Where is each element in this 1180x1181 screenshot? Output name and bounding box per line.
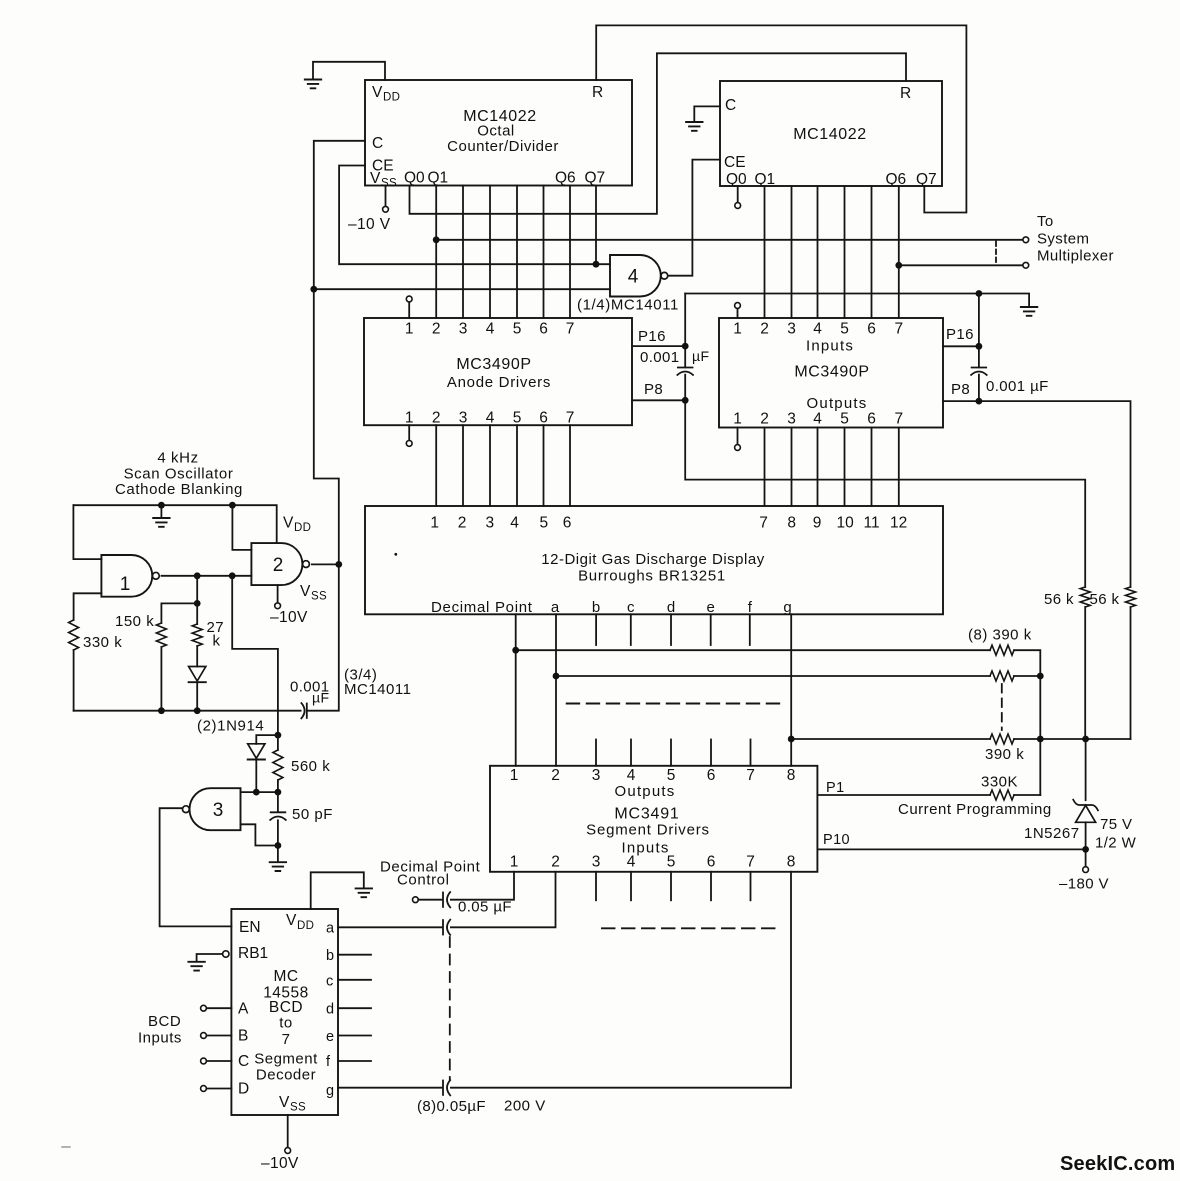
label (8)0.05uF xyxy=(417,1098,486,1115)
resistor R4 330K current programming xyxy=(990,790,1014,800)
label (2)1N914 xyxy=(197,718,264,735)
label 200 V xyxy=(504,1098,546,1115)
svg-text:µF: µF xyxy=(312,690,329,706)
wire h2 segment a to R 390k-2 xyxy=(556,675,990,677)
label P16 (U3) xyxy=(638,328,666,345)
wire gate2 VSS stub xyxy=(277,585,279,603)
label 390 k xyxy=(985,746,1024,763)
svg-text:10: 10 xyxy=(836,515,854,532)
svg-text:5: 5 xyxy=(840,411,849,428)
wire RB1 to ground xyxy=(197,954,223,961)
label 56 k (R6) xyxy=(1090,591,1120,608)
wire U1 output column x=517 to U3 xyxy=(516,186,518,319)
stub U5 input x=711 xyxy=(710,740,712,766)
wire U3 output x=517 to display xyxy=(516,425,518,506)
junction top rail / gate2 input xyxy=(229,502,236,509)
ground at RB1 xyxy=(188,962,204,971)
svg-text:Multiplexer: Multiplexer xyxy=(1037,248,1114,265)
terminal BCD input y=1008.2 xyxy=(201,1005,207,1011)
wire U3 output x=463 to display xyxy=(462,425,464,506)
wire gate4 bottom input from clock line xyxy=(314,288,610,290)
IC U1 MC14022 octal counter/divider box xyxy=(365,80,632,186)
junction rail / 27k-D1 xyxy=(194,707,201,714)
junction Q1 column / multiplexer line xyxy=(433,236,440,243)
svg-text:560 k: 560 k xyxy=(291,758,330,775)
wire gate1 output to gate2 input xyxy=(162,575,252,577)
IC U6 MC14558 BCD decoder box xyxy=(231,909,338,1115)
stub U6 output y=979.8 xyxy=(338,979,371,981)
svg-text:2: 2 xyxy=(551,767,560,784)
svg-text:75 V: 75 V xyxy=(1100,816,1132,833)
svg-text:4 kHz: 4 kHz xyxy=(157,450,198,467)
svg-text:1: 1 xyxy=(733,411,742,428)
svg-text:V: V xyxy=(372,84,383,101)
svg-text:c: c xyxy=(326,974,333,990)
svg-text:3: 3 xyxy=(459,321,468,338)
terminal U2 Q0 open xyxy=(735,203,741,209)
stub U5 input x=631 xyxy=(630,740,632,766)
label 0.05 uF xyxy=(458,899,512,916)
svg-text:3: 3 xyxy=(787,411,796,428)
svg-text:Counter/Divider: Counter/Divider xyxy=(447,138,559,155)
resistor R6 56k xyxy=(1126,587,1136,607)
label 0.001 (C3) xyxy=(290,679,330,696)
svg-text:d: d xyxy=(326,1002,334,1018)
svg-text:Q7: Q7 xyxy=(916,171,937,188)
wire display segment a to U5 pin2 xyxy=(555,614,557,766)
wire U4 output x=817.5 to display xyxy=(817,428,819,507)
stub U6 output y=1061 xyxy=(338,1060,371,1062)
wire D2 bottom xyxy=(255,760,257,792)
svg-text:7: 7 xyxy=(746,767,755,784)
svg-text:2: 2 xyxy=(760,411,769,428)
svg-text:4: 4 xyxy=(627,767,636,784)
terminal -180V xyxy=(1083,867,1089,873)
svg-text:0.001 µF: 0.001 µF xyxy=(986,378,1049,395)
wire U3 output x=436.2 to display xyxy=(435,425,437,506)
wire zener bottom to P10 node xyxy=(1085,822,1087,866)
wire U2 Q7 to U1 R loop xyxy=(596,25,966,212)
svg-text:–10V: –10V xyxy=(270,609,308,626)
wire feedback gate1 out to 560k node xyxy=(232,576,278,735)
gate2 VDD VSS labels xyxy=(283,515,327,603)
svg-text:SS: SS xyxy=(290,1102,306,1114)
label k (27k) xyxy=(213,633,221,650)
terminal U3 bottom pin1 open xyxy=(406,441,412,447)
svg-text:P16: P16 xyxy=(638,328,666,345)
dashed omitted segment connections xyxy=(567,703,785,705)
ground at P16 rail xyxy=(1021,307,1037,316)
display DS1 Burroughs BR13251 box xyxy=(365,506,943,614)
svg-text:DD: DD xyxy=(383,92,400,104)
stub U5 bottom pin x=711 xyxy=(710,872,712,901)
junction 560k / 50pF xyxy=(275,789,282,796)
IC U4 MC3490P (right) box xyxy=(719,318,943,428)
IC U5 MC3491 segment drivers box xyxy=(490,766,817,872)
wire U3 P8 xyxy=(632,399,685,401)
terminal -10V at U6 VSS xyxy=(285,1148,291,1154)
svg-text:1N5267: 1N5267 xyxy=(1024,825,1080,842)
svg-text:V: V xyxy=(283,515,294,532)
stub display segment x=749.8 xyxy=(749,614,751,645)
svg-text:DD: DD xyxy=(297,920,314,932)
junction ground rail / C2 xyxy=(976,290,983,297)
svg-text:2: 2 xyxy=(432,321,441,338)
watermark SeekIC.com xyxy=(1060,1153,1175,1175)
svg-text:Burroughs BR13251: Burroughs BR13251 xyxy=(578,568,726,585)
svg-text:P8: P8 xyxy=(951,381,970,398)
svg-text:Segment Drivers: Segment Drivers xyxy=(586,822,710,839)
svg-text:2: 2 xyxy=(458,515,467,532)
svg-text:200 V: 200 V xyxy=(504,1098,546,1115)
svg-text:5: 5 xyxy=(539,515,548,532)
svg-text:11: 11 xyxy=(864,515,880,532)
label (1/4)MC14011 xyxy=(577,297,679,314)
wire R1 to common vertical xyxy=(1014,650,1040,795)
stub U5 input x=750.5 xyxy=(750,740,752,766)
svg-text:Segment: Segment xyxy=(254,1051,318,1068)
stub U6 output y=1035.5 xyxy=(338,1035,371,1037)
svg-text:B: B xyxy=(238,1028,248,1045)
svg-text:a: a xyxy=(326,921,335,937)
svg-text:8: 8 xyxy=(787,515,796,532)
svg-text:Outputs: Outputs xyxy=(615,783,676,800)
label 1N5267 xyxy=(1024,825,1080,842)
svg-text:–180 V: –180 V xyxy=(1059,876,1109,893)
svg-text:MC3490P: MC3490P xyxy=(794,364,869,381)
wire U2 Q0 stub xyxy=(737,186,739,203)
stub display segment x=596.1 xyxy=(595,614,597,645)
node A feedback/560k/D2 xyxy=(275,732,282,739)
label Cathode Blanking xyxy=(115,481,243,498)
svg-text:7: 7 xyxy=(566,410,575,427)
svg-text:7: 7 xyxy=(759,515,768,532)
junction U3 P8 xyxy=(682,397,689,404)
resistor R7 330k xyxy=(69,620,79,650)
junction Q7 / gate4 top input xyxy=(593,261,600,268)
wire gate2 top input xyxy=(232,505,251,550)
stub U4 bottom pin1 xyxy=(737,428,739,445)
stub U5 bottom pin x=671 xyxy=(670,872,672,901)
label Multiplexer xyxy=(1037,248,1114,265)
svg-text:Q6: Q6 xyxy=(886,171,907,188)
capacitor C6 0.05uF (segment a) xyxy=(443,920,450,935)
svg-text:C: C xyxy=(725,97,736,114)
junction 50pF / ground xyxy=(275,842,282,849)
svg-text:0.05 µF: 0.05 µF xyxy=(458,899,512,916)
svg-text:C: C xyxy=(372,135,383,152)
terminal U4 top pin1 open xyxy=(735,303,741,309)
wire U2 C to ground xyxy=(694,106,720,121)
gate U7d NAND 4 (1/4 MC14011) xyxy=(610,255,668,297)
label 56 k (R5) xyxy=(1044,591,1074,608)
svg-text:MC14022: MC14022 xyxy=(793,126,867,143)
diode D1 1N914 xyxy=(189,667,206,683)
label -10 V (U1 VSS) xyxy=(348,216,391,233)
svg-text:6: 6 xyxy=(707,854,716,871)
svg-text:5: 5 xyxy=(667,854,676,871)
junction 150k/27k split xyxy=(194,600,201,607)
svg-text:2: 2 xyxy=(760,321,769,338)
resistor R2 390k (of 8) xyxy=(990,671,1014,681)
wire 50pF top xyxy=(277,792,279,811)
junction U3 P16 xyxy=(682,343,689,350)
label -180 V xyxy=(1059,876,1109,893)
svg-text:MC14011: MC14011 xyxy=(344,681,411,698)
svg-text:Inputs: Inputs xyxy=(806,338,854,355)
wire 560k top xyxy=(277,735,279,750)
wire DP control to C5 xyxy=(418,899,441,901)
svg-text:to: to xyxy=(279,1015,293,1032)
wire to R150k xyxy=(161,603,197,623)
ground at U2 C xyxy=(686,122,702,131)
IC U5 labels and pin numbers 1-8 xyxy=(510,767,796,871)
wire h1 decimal point to R 390k-1 xyxy=(516,649,990,651)
wire U4 P16 xyxy=(943,345,979,347)
svg-text:Q0: Q0 xyxy=(404,170,425,187)
svg-text:6: 6 xyxy=(867,411,876,428)
svg-text:k: k xyxy=(213,633,221,650)
svg-text:Anode Drivers: Anode Drivers xyxy=(447,374,551,391)
svg-text:3: 3 xyxy=(787,321,796,338)
label 75 V xyxy=(1100,816,1132,833)
wire U2 output column x=844.5 to U4 xyxy=(844,186,846,318)
stub display segment x=710.7 xyxy=(710,614,712,645)
label To xyxy=(1037,213,1054,230)
IC U6 labels xyxy=(238,912,335,1114)
junction R2 / common vertical xyxy=(1037,673,1044,680)
capacitor C1 vertical (upper) xyxy=(684,294,686,368)
svg-text:MC3490P: MC3490P xyxy=(456,356,531,373)
ground below 50pF xyxy=(270,862,286,871)
ground at U1 VDD xyxy=(305,80,321,89)
svg-text:7: 7 xyxy=(566,321,575,338)
wire U1 CE to gate4 top input xyxy=(339,166,610,265)
wire gate2 output xyxy=(312,563,339,565)
svg-text:V: V xyxy=(370,170,381,187)
junction top rail / ground xyxy=(158,502,165,509)
label 150 k xyxy=(115,613,154,630)
svg-text:6: 6 xyxy=(707,767,716,784)
capacitor C1 vertical (lower) and P8 run to 56k xyxy=(685,375,1085,587)
label 50 pF xyxy=(292,806,333,823)
svg-text:RB1: RB1 xyxy=(238,945,268,962)
wire R5 bottom to h3 xyxy=(1084,607,1086,739)
svg-text:7: 7 xyxy=(894,411,903,428)
svg-text:SeekIC.com: SeekIC.com xyxy=(1060,1153,1175,1175)
wire R6 bottom to h3 xyxy=(1130,607,1132,739)
label (8) 390 k xyxy=(968,627,1032,644)
svg-text:1: 1 xyxy=(430,515,439,532)
svg-text:C: C xyxy=(238,1053,249,1070)
svg-text:6: 6 xyxy=(539,410,548,427)
junction clock line / gate4 bottom input xyxy=(310,286,317,293)
wire oscillator bottom rail xyxy=(74,710,301,712)
label BCD xyxy=(148,1013,181,1030)
wire U3 P16 xyxy=(632,345,685,347)
label 560 k xyxy=(291,758,330,775)
display DS1 labels xyxy=(430,515,907,617)
label 4 kHz xyxy=(157,450,198,467)
svg-text:V: V xyxy=(279,1094,290,1111)
svg-text:(2)1N914: (2)1N914 xyxy=(197,718,264,735)
svg-text:3: 3 xyxy=(485,515,494,532)
stub U6 output y=954.7 xyxy=(338,954,371,956)
junction h3 / zener branch xyxy=(1082,736,1089,743)
wire C6 to U5 pin2 xyxy=(451,872,556,928)
svg-text:2: 2 xyxy=(432,410,441,427)
wire U1 VDD to ground xyxy=(313,62,385,80)
svg-text:Scan Oscillator: Scan Oscillator xyxy=(124,466,234,483)
svg-text:1: 1 xyxy=(405,410,414,427)
svg-text:D: D xyxy=(238,1081,249,1098)
wire display segment g to U5 pin8 xyxy=(790,614,792,766)
stub U3 bottom pin1 xyxy=(408,425,410,440)
svg-text:MC3491: MC3491 xyxy=(614,806,679,823)
junction P10 / zener xyxy=(1082,846,1089,853)
terminal BCD input y=1035.5 xyxy=(201,1033,207,1039)
wire U2 Q6 to system multiplexer xyxy=(899,264,1023,266)
svg-text:1: 1 xyxy=(733,321,742,338)
wire U4 output x=844.5 to display xyxy=(844,428,846,507)
resistor R1 390k (of 8) xyxy=(990,645,1014,655)
svg-text:–10V: –10V xyxy=(261,1155,299,1172)
wire U6 g to C7 xyxy=(338,1087,442,1089)
wire U2 output column x=817.5 to U4 xyxy=(817,186,819,318)
svg-text:5: 5 xyxy=(513,321,522,338)
junction U4 P8 xyxy=(976,398,983,405)
wire zener top xyxy=(1085,739,1087,800)
wire R4 to common vertical xyxy=(1014,794,1040,796)
capacitor C2 vertical (upper) xyxy=(978,294,980,368)
label 1/2 W xyxy=(1095,835,1137,852)
wire U6 a to C6 xyxy=(338,926,442,928)
diode D2 1N914 xyxy=(248,744,265,760)
wire U4 output x=764.5 to display xyxy=(764,428,766,507)
svg-text:P10: P10 xyxy=(823,832,850,848)
svg-text:4: 4 xyxy=(510,515,519,532)
IC U2 MC14022 box xyxy=(720,81,942,186)
label 0.001 (C1) xyxy=(640,349,680,366)
resistor R8 150k xyxy=(156,623,166,647)
svg-text:1: 1 xyxy=(510,854,519,871)
wire U6 VDD to ground xyxy=(311,872,364,909)
capacitor C7 0.05uF (segment g) xyxy=(443,1080,450,1095)
wire to R27k xyxy=(196,603,198,624)
bottom-left speck xyxy=(62,1146,70,1148)
label -10V (U6) xyxy=(261,1155,299,1172)
junction segment a / h2 xyxy=(553,673,560,680)
svg-text:5: 5 xyxy=(840,321,849,338)
IC U3 MC3490P anode drivers box xyxy=(364,318,632,425)
capacitor C4 50 pF xyxy=(270,812,286,820)
svg-text:1: 1 xyxy=(405,321,414,338)
stub U3 top pin1 xyxy=(408,302,410,318)
wire C5 to U5 pin1 xyxy=(451,872,514,900)
wire P16 ground rail xyxy=(685,294,1029,307)
label 0.001 uF (C2) xyxy=(986,378,1049,395)
svg-text:1: 1 xyxy=(510,767,519,784)
capacitor C3 0.001uF feedback xyxy=(301,703,306,718)
label uF (C1) xyxy=(692,348,709,364)
terminal to system multiplexer (lower) xyxy=(1023,262,1029,268)
label System xyxy=(1037,231,1089,248)
RB1 bubble xyxy=(223,951,229,957)
label Inputs xyxy=(138,1030,182,1047)
wire U2 output column x=871.5 to U4 xyxy=(871,186,873,318)
wire U1 output column x=490 to U3 xyxy=(489,186,491,319)
dashed omitted 390k resistors xyxy=(1001,684,1003,730)
label Control xyxy=(397,872,450,889)
svg-text:SS: SS xyxy=(311,591,327,603)
wire R27k to diode D1 xyxy=(196,646,198,667)
label -10V (gate2) xyxy=(270,609,308,626)
resistor R9 27k xyxy=(192,624,202,646)
terminal BCD input y=1061 xyxy=(201,1058,207,1064)
wire BCD input y=1088.5 xyxy=(206,1088,231,1090)
wire D1 to rail xyxy=(196,683,198,711)
svg-text:Outputs: Outputs xyxy=(807,395,868,412)
svg-text:330 k: 330 k xyxy=(83,634,122,651)
stub U6 output y=1008.2 xyxy=(338,1007,371,1009)
svg-text:Q6: Q6 xyxy=(555,170,576,187)
svg-text:7: 7 xyxy=(894,321,903,338)
svg-text:Octal: Octal xyxy=(477,123,515,140)
svg-text:6: 6 xyxy=(539,321,548,338)
svg-text:Control: Control xyxy=(397,872,450,889)
svg-text:330K: 330K xyxy=(981,774,1018,791)
wire BCD input y=1008.2 xyxy=(206,1007,231,1009)
wire R330k bottom to rail xyxy=(73,650,75,711)
svg-text:Decoder: Decoder xyxy=(256,1067,316,1084)
junction gate2 output node xyxy=(335,561,342,568)
svg-text:SS: SS xyxy=(381,178,397,190)
capacitor C1 0.001uF plates xyxy=(677,368,693,375)
svg-text:EN: EN xyxy=(239,919,261,936)
label Scan Oscillator xyxy=(124,466,234,483)
svg-text:(1/4)MC14011: (1/4)MC14011 xyxy=(577,297,679,314)
stub U4 top pin1 xyxy=(737,308,739,318)
stub gate3 ground xyxy=(277,846,279,862)
wire Q1 to system multiplexer xyxy=(436,239,1022,241)
gate U7a NAND 1 xyxy=(101,555,159,597)
capacitor C5 0.05uF xyxy=(443,892,450,907)
wire 50pF bottom xyxy=(277,820,279,845)
wire U1 VSS stub xyxy=(385,186,387,207)
wire U4 P8 run to 56k xyxy=(943,401,1131,587)
label 27 xyxy=(207,619,225,636)
svg-text:2: 2 xyxy=(273,555,284,576)
svg-text:MC: MC xyxy=(273,968,298,985)
stub U5 bottom pin x=750.5 xyxy=(750,872,752,901)
svg-text:3: 3 xyxy=(592,854,601,871)
svg-text:To: To xyxy=(1037,213,1054,230)
wire R2 to common vertical xyxy=(1014,675,1040,677)
dashed omitted segment caps xyxy=(449,937,451,1080)
svg-text:Q0: Q0 xyxy=(726,171,747,188)
stub U5 input x=596 xyxy=(595,740,597,766)
svg-text:e: e xyxy=(326,1029,334,1045)
svg-text:7: 7 xyxy=(746,854,755,871)
speck inside display box xyxy=(394,553,397,556)
wire h3 segment g to R 390k-3 xyxy=(791,738,990,740)
svg-text:BCD: BCD xyxy=(269,999,303,1016)
junction D2 / gate3 input xyxy=(253,789,260,796)
terminal to system multiplexer (upper) xyxy=(1023,237,1029,243)
label Decimal Point xyxy=(380,859,481,876)
svg-text:6: 6 xyxy=(867,321,876,338)
wire U4 output x=871.5 to display xyxy=(871,428,873,507)
